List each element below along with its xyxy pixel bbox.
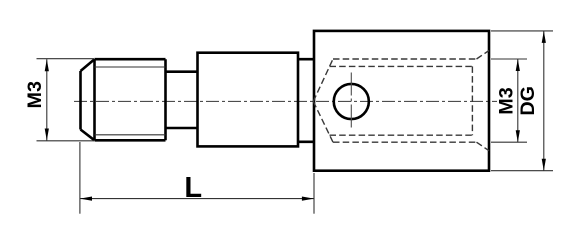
RIGHT M3 dimension xyxy=(491,59,527,142)
L dimension xyxy=(80,142,314,214)
thread minor diameter thin lines xyxy=(95,67,166,135)
DG dimension xyxy=(491,31,553,171)
cross hole circle xyxy=(334,84,369,119)
big block xyxy=(314,31,489,171)
svg-text:M3: M3 xyxy=(496,87,518,114)
svg-text:M3: M3 xyxy=(24,81,46,108)
centerline main horizontal xyxy=(74,100,497,102)
medium block xyxy=(198,53,299,147)
vertical centerline of circle xyxy=(350,73,352,130)
hidden internal thread (dashed) xyxy=(313,51,489,151)
svg-text:DG: DG xyxy=(517,86,539,116)
neck 1 xyxy=(166,72,198,128)
threaded stud M3 body xyxy=(81,59,166,140)
neck 2 xyxy=(298,59,314,142)
LEFT M3 dimension xyxy=(37,59,95,141)
svg-text:L: L xyxy=(184,172,202,204)
